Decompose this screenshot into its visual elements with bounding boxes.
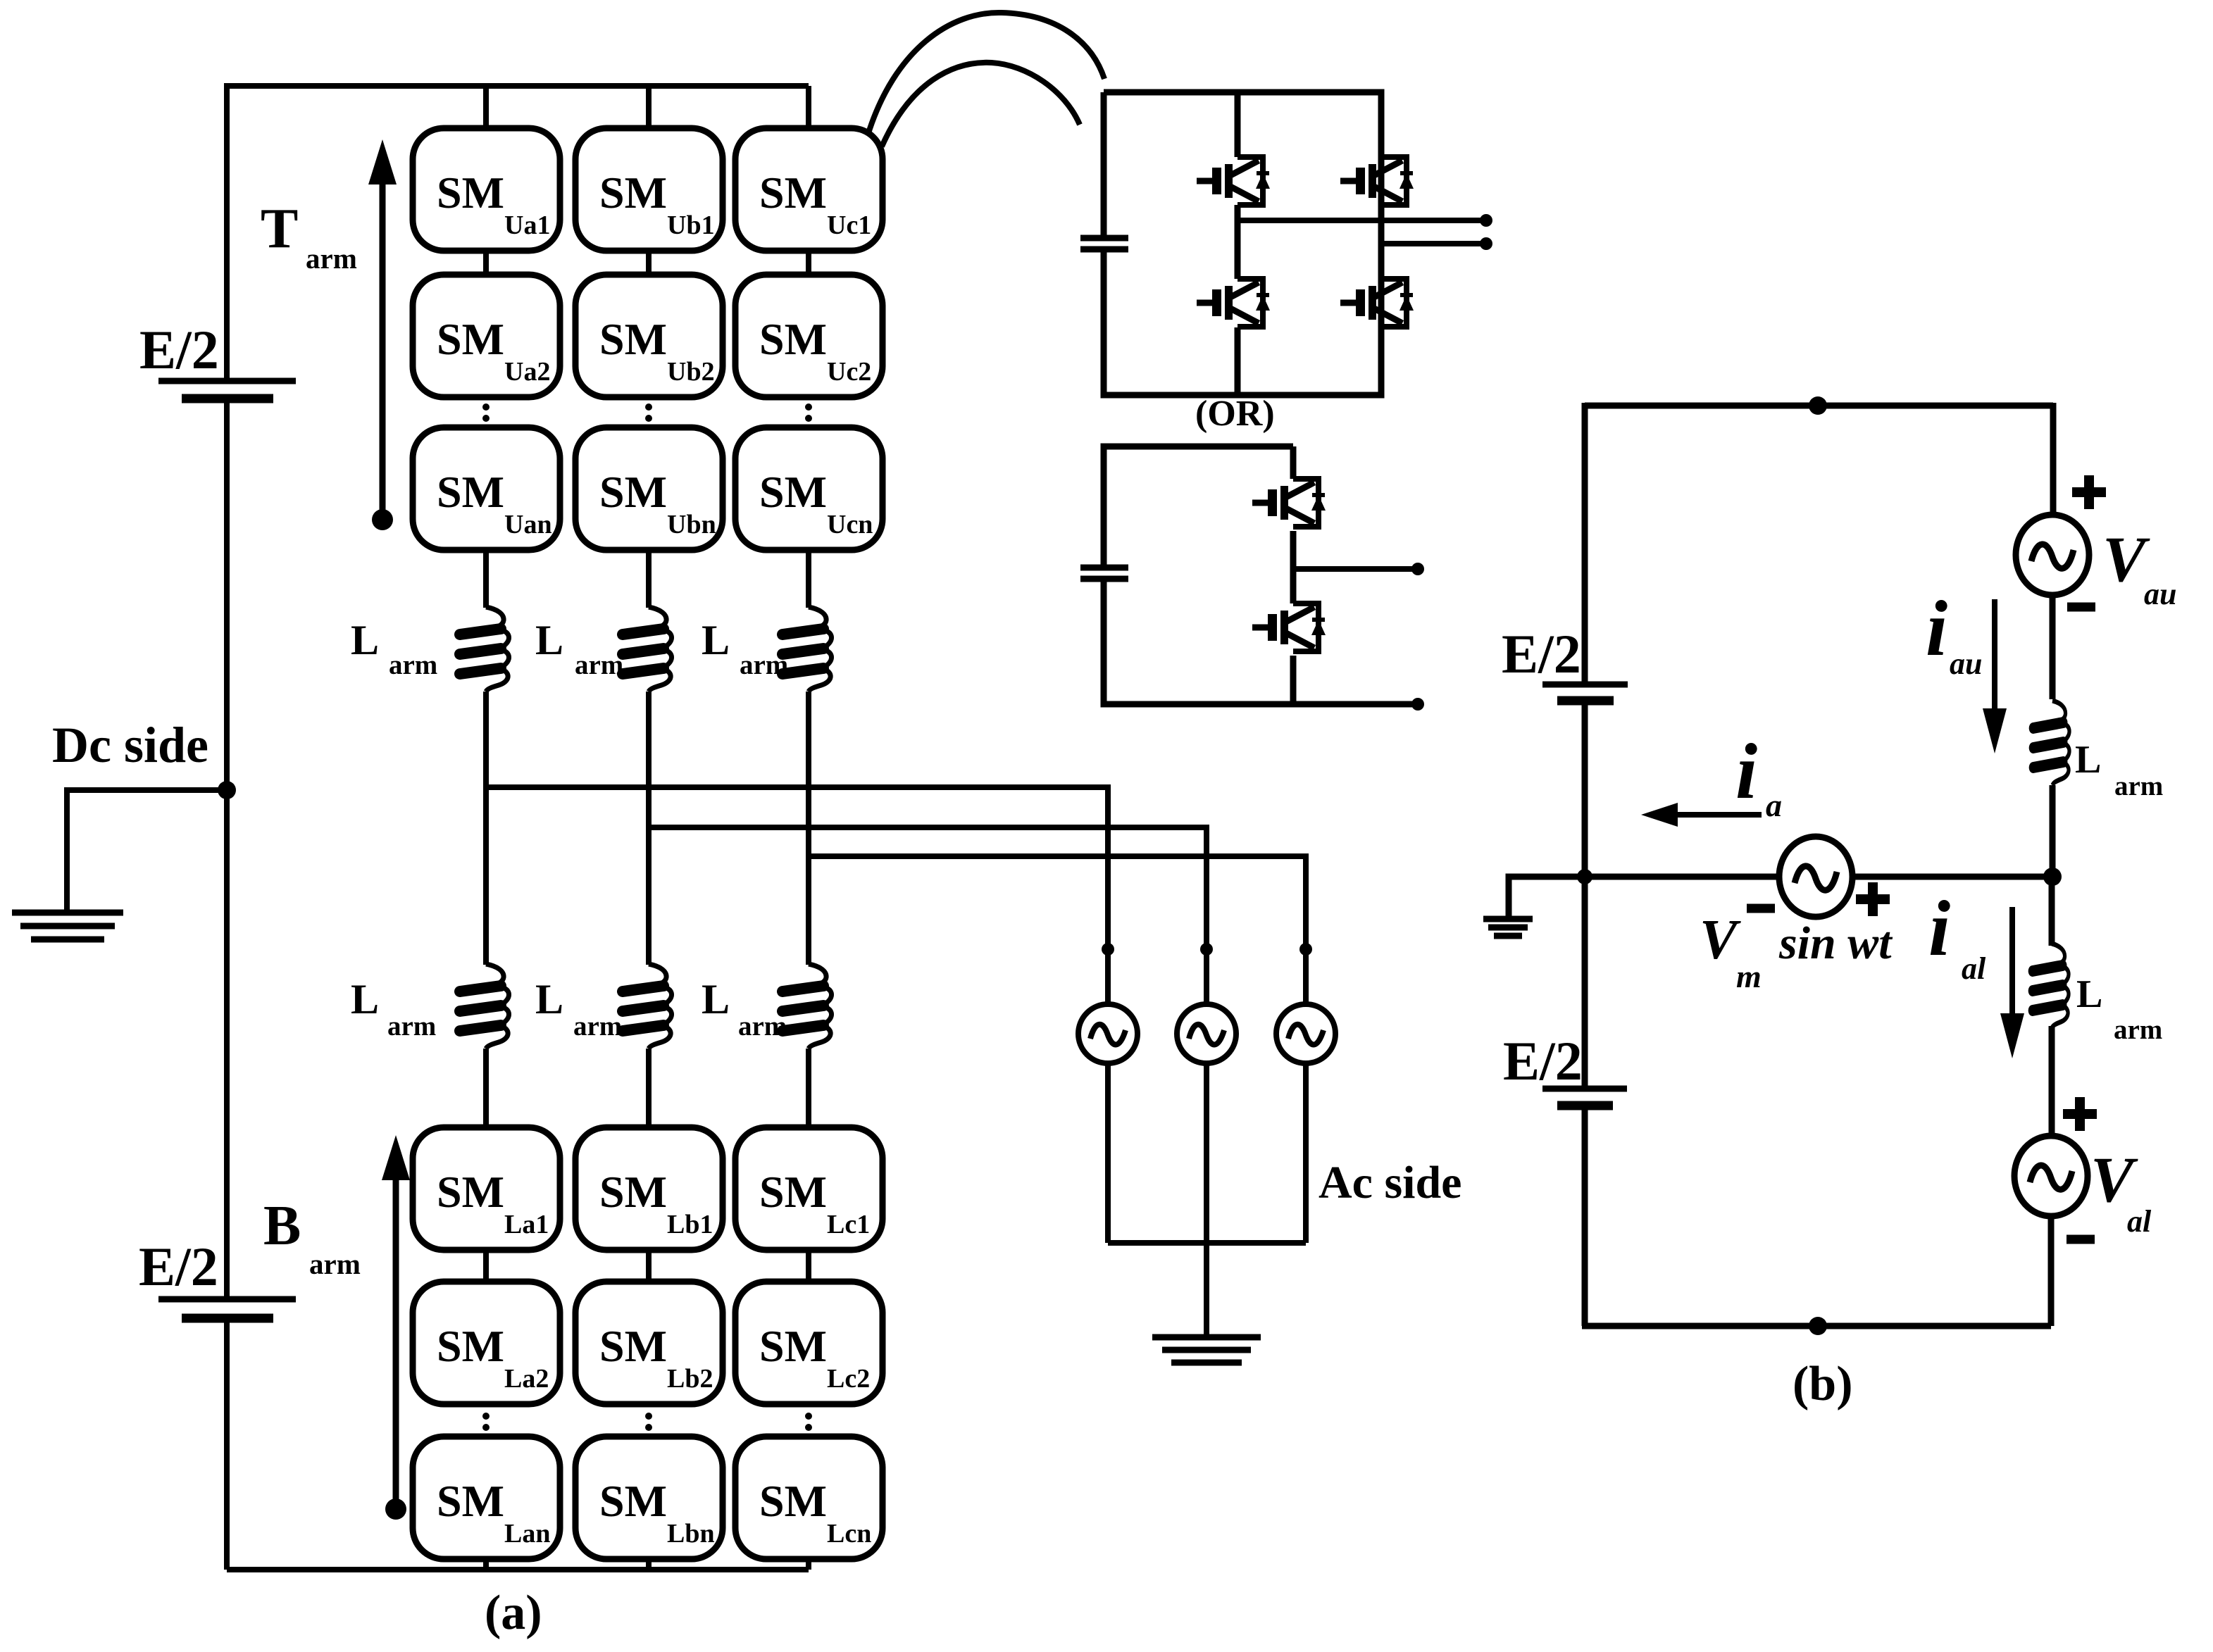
submodule SM_Lan bbox=[413, 1437, 560, 1559]
transistor Q1 (full-bridge upper-left IGBT) bbox=[1197, 157, 1270, 205]
wire: (b) ground stub bbox=[1509, 877, 1585, 916]
svg-text:Uan: Uan bbox=[504, 510, 552, 539]
wire: (b) mid line bbox=[1585, 874, 2052, 880]
label minus Vm bbox=[1747, 908, 1775, 909]
svg-text:arm: arm bbox=[575, 650, 623, 680]
wire: (b) left bus upper bbox=[1582, 403, 1588, 684]
svg-text:al: al bbox=[2127, 1204, 2152, 1239]
node: AC drop b dot bbox=[1200, 943, 1213, 956]
svg-text:i: i bbox=[1928, 885, 1950, 972]
svg-text:SM: SM bbox=[437, 168, 504, 218]
svg-text:SM: SM bbox=[759, 1167, 827, 1217]
transistor Q2 (full-bridge upper-right IGBT) bbox=[1340, 157, 1414, 205]
svg-text:L: L bbox=[351, 976, 379, 1022]
svg-text:La2: La2 bbox=[504, 1364, 549, 1394]
node: (b) mid-right junction dot bbox=[2043, 868, 2062, 886]
svg-text:Uc2: Uc2 bbox=[827, 357, 871, 387]
svg-text:SM: SM bbox=[437, 314, 504, 364]
arrow: i_al bbox=[2000, 907, 2024, 1058]
svg-text:Lc1: Lc1 bbox=[827, 1210, 870, 1239]
submodule SM_Ua1 bbox=[413, 128, 560, 251]
wire: left DC bus middle segment bbox=[224, 401, 230, 1299]
inductor L_arm lower c bbox=[783, 964, 832, 1049]
svg-text:au: au bbox=[1950, 646, 1982, 681]
label minus Val bbox=[2066, 1239, 2095, 1240]
AC source Va bbox=[1078, 1004, 1137, 1063]
svg-text:L: L bbox=[535, 617, 563, 663]
svg-text:Ua1: Ua1 bbox=[504, 211, 550, 240]
svg-text:i: i bbox=[1926, 585, 1947, 672]
node: full-bridge tap upper dot bbox=[1480, 214, 1492, 227]
svg-text:arm: arm bbox=[738, 1011, 787, 1041]
battery E2 (lower E/2 source) bbox=[158, 1299, 296, 1318]
submodule SM_Uc2 bbox=[735, 275, 883, 397]
svg-text:Lb1: Lb1 bbox=[667, 1210, 713, 1239]
submodule SM_Lb1 bbox=[575, 1127, 723, 1250]
svg-text:Ub1: Ub1 bbox=[667, 211, 715, 240]
node: (b) mid-left junction dot bbox=[1577, 869, 1592, 884]
wire: half-bridge output tap bbox=[1293, 566, 1418, 572]
submodule SM_Uc1 bbox=[735, 128, 883, 251]
node: half-bridge bottom dot bbox=[1411, 698, 1424, 711]
node: DC midpoint junction bbox=[218, 781, 236, 799]
submodule SM_La1 bbox=[413, 1127, 560, 1250]
wire: (b) left bus lower bbox=[1582, 1108, 1588, 1326]
wire: AC drop c lower bbox=[1303, 1063, 1309, 1243]
transistor Q6 (half-bridge lower IGBT) bbox=[1252, 603, 1326, 651]
source Vm sin wt bbox=[1779, 837, 1852, 917]
svg-text:SM: SM bbox=[437, 1321, 504, 1371]
arrow: i_au bbox=[1983, 599, 2007, 753]
node: dots phase a lower bbox=[482, 1413, 490, 1431]
ground: AC side ground bbox=[1152, 1337, 1261, 1363]
svg-text:E/2: E/2 bbox=[1503, 1030, 1583, 1091]
label plus Val bbox=[2063, 1097, 2097, 1131]
svg-text:L: L bbox=[351, 617, 379, 663]
svg-text:arm: arm bbox=[740, 650, 788, 680]
svg-text:Lb2: Lb2 bbox=[667, 1364, 713, 1394]
node: dots phase c upper bbox=[805, 403, 812, 422]
wire: pointer arc outer bbox=[868, 13, 1104, 135]
svg-text:SM: SM bbox=[599, 168, 667, 218]
transistor Q3 (full-bridge lower-left IGBT) bbox=[1197, 279, 1270, 327]
svg-text:B: B bbox=[263, 1195, 301, 1257]
node: dots phase a upper bbox=[482, 403, 490, 422]
AC source Vb bbox=[1177, 1004, 1236, 1063]
wire: full-bridge left leg segments bbox=[1235, 92, 1241, 395]
svg-text:Lcn: Lcn bbox=[827, 1519, 871, 1548]
svg-text:SM: SM bbox=[599, 467, 667, 517]
wire: AC drop b lower bbox=[1204, 1063, 1209, 1335]
node: half-bridge tap dot bbox=[1411, 563, 1424, 575]
submodule SM_Lbn bbox=[575, 1437, 723, 1559]
svg-text:(b): (b) bbox=[1793, 1357, 1853, 1411]
submodule SM_Lcn bbox=[735, 1437, 883, 1559]
svg-text:(a): (a) bbox=[485, 1586, 542, 1640]
svg-text:i: i bbox=[1735, 728, 1757, 815]
inductor L_arm upper a bbox=[460, 607, 509, 692]
wire: DC top bus bbox=[227, 83, 809, 89]
svg-text:sin wt: sin wt bbox=[1778, 918, 1893, 969]
svg-text:L: L bbox=[535, 976, 563, 1022]
svg-text:arm: arm bbox=[2114, 771, 2163, 801]
wire: AC bottom tie bbox=[1108, 1240, 1306, 1246]
node: (b) bottom dot bbox=[1809, 1317, 1827, 1335]
arrow: B arm bbox=[382, 1135, 410, 1520]
source V_al bbox=[2014, 1136, 2088, 1216]
wire: phase b upper column bbox=[646, 86, 652, 1570]
svg-text:Ac side: Ac side bbox=[1319, 1157, 1461, 1208]
node: AC drop a dot bbox=[1102, 943, 1114, 956]
inductor L_arm (b) lower bbox=[2033, 944, 2069, 1028]
svg-text:Lc2: Lc2 bbox=[827, 1364, 870, 1394]
svg-text:m: m bbox=[1736, 958, 1762, 994]
transistor Q5 (half-bridge upper IGBT) bbox=[1252, 479, 1326, 527]
wire: left DC bus lower segment bbox=[224, 1321, 230, 1570]
svg-text:SM: SM bbox=[759, 1321, 827, 1371]
svg-text:al: al bbox=[1962, 951, 1986, 986]
node: full-bridge tap lower dot bbox=[1480, 237, 1492, 250]
AC source Vc bbox=[1276, 1004, 1335, 1063]
svg-text:SM: SM bbox=[759, 168, 827, 218]
ground: DC side ground bbox=[12, 913, 123, 939]
svg-text:arm: arm bbox=[309, 1248, 361, 1280]
svg-text:E/2: E/2 bbox=[139, 1236, 218, 1297]
svg-text:SM: SM bbox=[599, 314, 667, 364]
node: dots phase b upper bbox=[645, 403, 652, 422]
svg-text:V: V bbox=[2102, 523, 2150, 595]
arrow: i_a bbox=[1641, 803, 1762, 827]
svg-text:arm: arm bbox=[306, 242, 357, 275]
node: AC drop c dot bbox=[1299, 943, 1312, 956]
wire: AC drop a lower bbox=[1105, 1063, 1111, 1243]
svg-text:E/2: E/2 bbox=[1502, 623, 1581, 684]
svg-text:Ubn: Ubn bbox=[667, 510, 716, 539]
wire: (b) bottom line bbox=[1582, 1323, 2051, 1329]
submodule SM_Uan bbox=[413, 427, 560, 550]
svg-text:au: au bbox=[2144, 577, 2176, 611]
label plus Vm bbox=[1856, 882, 1890, 916]
svg-text:Dc side: Dc side bbox=[52, 717, 208, 773]
capacitor C_hb bbox=[1080, 568, 1128, 579]
svg-text:L: L bbox=[2075, 738, 2101, 782]
svg-text:Lan: Lan bbox=[504, 1519, 550, 1548]
node: dots phase b lower bbox=[645, 1413, 652, 1431]
arrow: T arm bbox=[368, 139, 397, 530]
battery E3 ((b) upper E/2) bbox=[1542, 684, 1628, 701]
label minus Vau bbox=[2067, 606, 2095, 608]
submodule SM_La2 bbox=[413, 1282, 560, 1404]
submodule SM_Ucn bbox=[735, 427, 883, 550]
node: (b) top dot bbox=[1809, 396, 1827, 415]
svg-text:SM: SM bbox=[437, 1476, 504, 1526]
wire: full-bridge output tap upper bbox=[1238, 218, 1486, 223]
wire: AC phase a line bbox=[486, 787, 1108, 1004]
svg-text:arm: arm bbox=[387, 1011, 436, 1041]
svg-text:Ua2: Ua2 bbox=[504, 357, 550, 387]
wire: (b) left bus middle bbox=[1582, 703, 1588, 1089]
inductor L_arm upper b bbox=[623, 607, 672, 692]
svg-text:SM: SM bbox=[599, 1321, 667, 1371]
battery E1 (upper E/2 source) bbox=[158, 381, 296, 399]
wire: (b) right branch top bbox=[2050, 403, 2057, 515]
svg-text:E/2: E/2 bbox=[139, 319, 219, 380]
svg-text:SM: SM bbox=[759, 467, 827, 517]
label plus Vau bbox=[2072, 475, 2106, 509]
svg-text:(OR): (OR) bbox=[1195, 394, 1275, 434]
wire: DC bottom bus bbox=[227, 1567, 809, 1572]
capacitor C_fb bbox=[1080, 238, 1128, 249]
wire: phase a upper column bbox=[483, 86, 489, 1570]
wire: (b) coil to Val bbox=[2049, 1026, 2055, 1135]
svg-text:V: V bbox=[1700, 909, 1741, 971]
wire: (b) top line bbox=[1585, 403, 2053, 409]
wire: full-bridge output tap lower bbox=[1381, 241, 1486, 246]
svg-text:SM: SM bbox=[599, 1167, 667, 1217]
submodule SM_Ua2 bbox=[413, 275, 560, 397]
svg-text:arm: arm bbox=[573, 1011, 622, 1041]
submodule SM_Lc1 bbox=[735, 1127, 883, 1250]
svg-text:SM: SM bbox=[599, 1476, 667, 1526]
wire: (b) coil to mid bbox=[2050, 785, 2056, 877]
source V_au bbox=[2016, 515, 2089, 595]
transistor Q4 (full-bridge lower-right IGBT) bbox=[1340, 279, 1414, 327]
svg-text:Lbn: Lbn bbox=[667, 1519, 715, 1548]
wire: DC ground stub bbox=[67, 790, 227, 910]
svg-text:T: T bbox=[261, 198, 298, 260]
wire: left DC bus upper segment bbox=[224, 83, 230, 381]
submodule SM_Ubn bbox=[575, 427, 723, 550]
svg-text:SM: SM bbox=[759, 1476, 827, 1526]
svg-text:arm: arm bbox=[389, 650, 437, 680]
inductor L_arm upper c bbox=[783, 607, 832, 692]
svg-text:La1: La1 bbox=[504, 1210, 549, 1239]
svg-text:SM: SM bbox=[759, 314, 827, 364]
wire: AC phase b line bbox=[649, 827, 1207, 1004]
wire: (b) mid to lower coil bbox=[2049, 877, 2055, 946]
submodule SM_Lc2 bbox=[735, 1282, 883, 1404]
svg-text:L: L bbox=[702, 617, 730, 663]
half-bridge submodule outline bbox=[1104, 446, 1418, 704]
wire: pointer arc inner bbox=[882, 63, 1080, 146]
svg-text:L: L bbox=[2076, 972, 2102, 1016]
submodule SM_Ub1 bbox=[575, 128, 723, 251]
submodule SM_Lb2 bbox=[575, 1282, 723, 1404]
svg-text:SM: SM bbox=[437, 467, 504, 517]
battery E4 ((b) lower E/2) bbox=[1542, 1089, 1627, 1106]
node: dots phase c lower bbox=[805, 1413, 812, 1431]
svg-text:a: a bbox=[1766, 787, 1782, 823]
svg-text:arm: arm bbox=[2114, 1015, 2162, 1045]
svg-text:Ub2: Ub2 bbox=[667, 357, 715, 387]
inductor L_arm lower a bbox=[460, 964, 509, 1049]
svg-text:Ucn: Ucn bbox=[827, 510, 873, 539]
wire: phase c upper column bbox=[806, 86, 811, 1570]
wire: AC phase c line bbox=[809, 856, 1306, 1004]
full-bridge submodule outline bbox=[1104, 92, 1381, 395]
svg-text:Uc1: Uc1 bbox=[827, 211, 871, 240]
inductor L_arm (b) upper bbox=[2033, 701, 2069, 785]
wire: (b) right branch Vau to coil bbox=[2050, 595, 2056, 699]
inductor L_arm lower b bbox=[623, 964, 672, 1049]
ground: (b) ground bbox=[1483, 919, 1533, 936]
wire: (b) Val to bottom bbox=[2048, 1216, 2055, 1326]
svg-text:L: L bbox=[702, 976, 730, 1022]
submodule SM_Ub2 bbox=[575, 275, 723, 397]
svg-text:SM: SM bbox=[437, 1167, 504, 1217]
